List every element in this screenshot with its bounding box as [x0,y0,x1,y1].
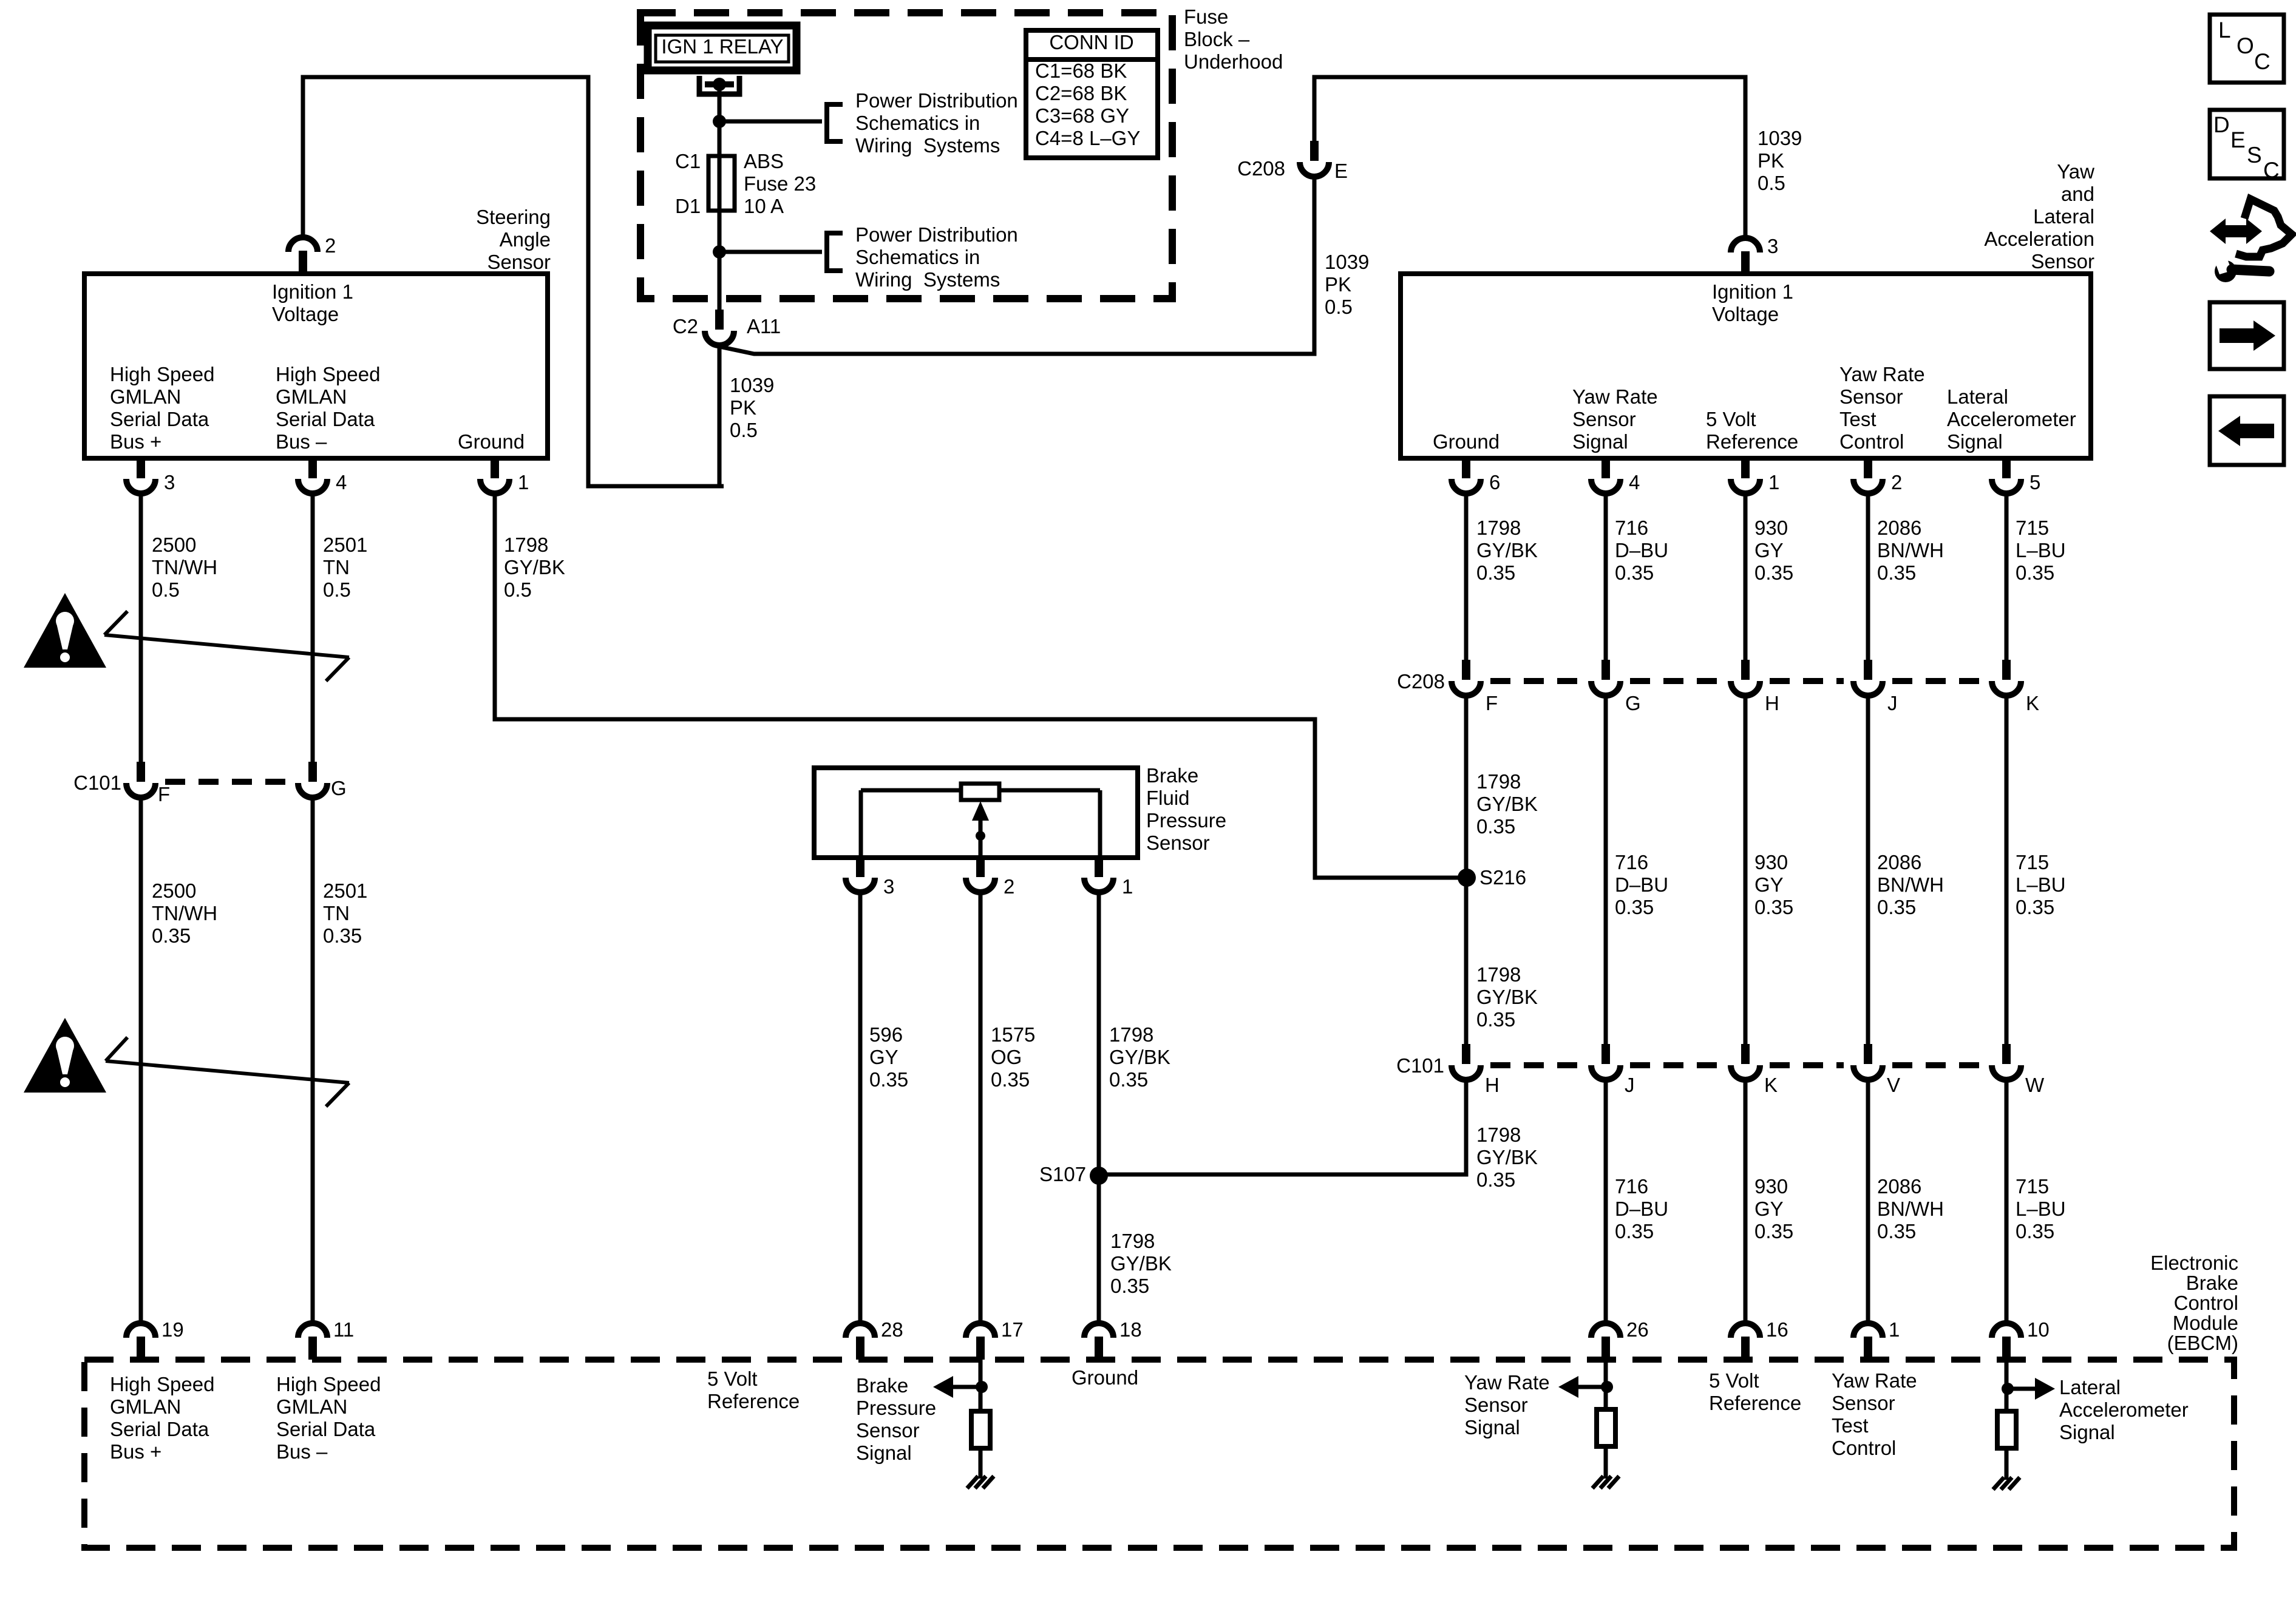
svg-text:F: F [158,783,170,805]
svg-text:S216: S216 [1479,866,1526,889]
svg-text:L: L [2218,18,2231,42]
svg-text:C1=68 BKC2=68 BKC3=68 GYC4=8 L: C1=68 BKC2=68 BKC3=68 GYC4=8 L–GY [1035,59,1140,149]
svg-text:1: 1 [1122,875,1133,898]
svg-text:19: 19 [161,1318,184,1341]
svg-text:6: 6 [1489,471,1500,493]
svg-text:3: 3 [164,471,175,493]
svg-text:F: F [1486,692,1498,714]
svg-text:E: E [1334,160,1348,182]
svg-text:4: 4 [336,471,347,493]
svg-text:K: K [2026,692,2039,714]
svg-text:C: C [2254,49,2271,74]
svg-text:28: 28 [881,1318,903,1341]
svg-text:5: 5 [2029,471,2040,493]
svg-text:1: 1 [1768,471,1779,493]
svg-text:IGN 1 RELAY: IGN 1 RELAY [661,35,783,58]
svg-text:Ground: Ground [1072,1366,1138,1389]
svg-text:4: 4 [1629,471,1640,493]
svg-text:K: K [1764,1074,1778,1096]
svg-text:26: 26 [1626,1318,1649,1341]
svg-text:S107: S107 [1039,1163,1086,1185]
svg-text:D: D [2213,112,2230,137]
svg-text:Ground: Ground [458,430,525,453]
svg-text:W: W [2025,1074,2045,1096]
svg-text:A11: A11 [747,315,781,337]
svg-text:C: C [2263,158,2280,183]
svg-text:C208: C208 [1237,157,1285,180]
svg-text:O: O [2237,33,2254,58]
svg-text:H: H [1485,1074,1500,1096]
svg-text:C101: C101 [73,771,121,794]
svg-text:17: 17 [1001,1318,1024,1341]
svg-text:Ground: Ground [1433,430,1500,453]
svg-text:E: E [2230,127,2246,152]
svg-text:2: 2 [325,234,336,257]
svg-text:G: G [1625,692,1641,714]
svg-text:C101: C101 [1396,1054,1444,1077]
svg-text:C208: C208 [1397,670,1445,693]
svg-text:1: 1 [518,471,529,493]
svg-text:J: J [1625,1074,1635,1096]
svg-text:11: 11 [333,1318,354,1341]
svg-text:2: 2 [1891,471,1902,493]
svg-text:3: 3 [1767,235,1778,257]
svg-text:18: 18 [1119,1318,1142,1341]
svg-text:C2: C2 [673,315,698,337]
svg-text:S: S [2247,143,2262,168]
svg-text:3: 3 [883,875,894,898]
svg-text:D1: D1 [675,195,701,217]
svg-text:1: 1 [1889,1318,1900,1341]
svg-text:10: 10 [2027,1318,2050,1341]
svg-text:V: V [1887,1074,1900,1096]
svg-text:C1: C1 [675,150,701,172]
svg-text:J: J [1887,692,1898,714]
svg-text:2: 2 [1004,875,1014,898]
svg-text:H: H [1765,692,1779,714]
svg-text:CONN ID: CONN ID [1049,31,1133,53]
svg-text:16: 16 [1766,1318,1788,1341]
svg-text:G: G [331,777,347,799]
